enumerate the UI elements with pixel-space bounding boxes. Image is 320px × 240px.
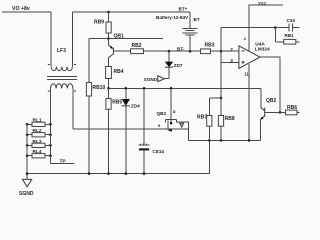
wire RL right bus <box>50 124 52 163</box>
wire pin3 <box>221 62 239 64</box>
wire top rail to battery <box>73 11 191 13</box>
resistor RL2 <box>26 128 52 137</box>
transistor QB2 <box>260 88 280 140</box>
battery BT <box>156 7 200 52</box>
zener ZD4 <box>122 88 141 173</box>
primary right leg <box>72 12 74 67</box>
wire TP stub <box>51 163 75 165</box>
wire RB2 to RB3 <box>144 50 201 52</box>
node battery minus <box>189 50 192 53</box>
svg-text:D: D <box>173 109 176 114</box>
svg-text:RB1: RB1 <box>285 33 295 38</box>
secondary right leg <box>72 88 74 129</box>
node CE14 bottom <box>143 172 146 175</box>
node RB5 bottom <box>107 172 110 175</box>
svg-text:ZD7: ZD7 <box>174 63 183 68</box>
node ZD4 bottom <box>125 172 128 175</box>
resistor RB8 <box>218 98 234 140</box>
node rail left <box>26 172 29 175</box>
transistor QB1 <box>109 34 125 67</box>
ground SGND bottom <box>19 179 34 196</box>
svg-text:S: S <box>158 123 161 128</box>
svg-text:LF3: LF3 <box>57 48 66 54</box>
wire RL left bus <box>26 124 28 179</box>
core lines <box>47 77 77 80</box>
node ZD7 top <box>168 50 171 53</box>
resistor RB2 <box>131 43 144 54</box>
wire horizontal y38.5 <box>89 38 163 40</box>
resistor RB10 <box>86 83 105 97</box>
resistor RB4 <box>106 67 124 89</box>
pin tick secondary 2 <box>74 90 76 92</box>
capacitor C34 <box>275 18 299 32</box>
svg-text:SGND: SGND <box>19 191 34 197</box>
node RB8 bottom <box>220 139 223 142</box>
resistor RB6 <box>280 105 300 115</box>
wire rail y140 <box>189 139 261 141</box>
node RB4/RB5 <box>107 87 110 90</box>
svg-text:RB4: RB4 <box>114 69 124 75</box>
resistor RB1 <box>275 28 299 45</box>
wire left drop to RB10 <box>88 39 90 83</box>
node RB7 bottom <box>208 139 211 142</box>
ground marker small <box>180 123 184 127</box>
wire QB1 base to RB2 <box>113 50 130 52</box>
wire RB10 to rail <box>88 96 90 129</box>
wire ground rail link <box>208 140 210 173</box>
svg-text:BT+: BT+ <box>179 7 188 12</box>
wire bottom rail <box>27 173 209 175</box>
node QB1 collector <box>107 37 110 40</box>
resistor RL4 <box>26 149 52 158</box>
pin tick secondary 1 <box>48 90 50 92</box>
pin tick primary 2 <box>74 64 76 66</box>
wire top-left rail <box>2 12 51 67</box>
node CE14 top <box>143 87 146 90</box>
resistor RB3 <box>201 42 215 53</box>
resistor RB9 <box>94 12 111 39</box>
node QB3 drain <box>170 87 173 90</box>
wire divider tap left <box>209 97 221 99</box>
resistor RL1 <box>26 118 52 127</box>
svg-text:RB7: RB7 <box>197 115 207 121</box>
svg-text:11: 11 <box>244 71 249 76</box>
svg-text:RB8: RB8 <box>225 116 235 122</box>
capacitor CE14 <box>139 88 165 173</box>
secondary left leg <box>50 88 52 124</box>
svg-text:SGND: SGND <box>144 77 158 82</box>
wire QB3 right link <box>177 122 189 140</box>
wire RB3 to op-amp pin2 <box>211 50 239 52</box>
node pin11 bottom <box>248 139 251 142</box>
svg-text:U4A: U4A <box>255 41 265 47</box>
node feedback right <box>274 26 277 29</box>
resistor RB5 <box>106 88 123 173</box>
wire rail y129 <box>73 128 189 130</box>
svg-text:Battery-12-84V: Battery-12-84V <box>156 15 189 20</box>
zener ZD7 <box>165 51 183 78</box>
svg-text:BT: BT <box>194 17 200 22</box>
svg-text:TP: TP <box>60 159 67 165</box>
wire pin 11 <box>244 64 249 140</box>
svg-text:BT-: BT- <box>177 46 185 51</box>
wire RB10 chain to bottom rail <box>88 129 90 174</box>
resistor RL3 <box>26 139 52 148</box>
svg-text:VO +8v: VO +8v <box>12 6 30 12</box>
node output to RB6 <box>279 111 282 114</box>
wire op-amp output <box>260 57 280 112</box>
node feedback tap <box>220 50 223 53</box>
op-amp U4A LM324 <box>239 41 270 68</box>
svg-text:RB3: RB3 <box>205 42 215 48</box>
svg-text:QB3: QB3 <box>157 111 167 116</box>
node divider tap <box>220 97 223 100</box>
mosfet QB3 <box>157 88 177 131</box>
pin tick primary 1 <box>48 64 50 66</box>
node RB10 bottom <box>88 172 91 175</box>
svg-text:CE14: CE14 <box>153 149 165 154</box>
node ZD4 top <box>125 87 128 90</box>
svg-text:C34: C34 <box>287 18 296 23</box>
wire feedback top <box>221 27 275 29</box>
svg-text:2: 2 <box>230 47 233 52</box>
wire +5V power pin 4 <box>244 0 283 51</box>
ground port SGND (zener) <box>144 76 169 82</box>
primary coil <box>51 67 72 71</box>
svg-text:RB10: RB10 <box>93 85 106 91</box>
svg-text:QB2: QB2 <box>266 98 277 104</box>
svg-text:LM324: LM324 <box>255 47 270 53</box>
svg-text:RB2: RB2 <box>132 43 142 49</box>
svg-text:RB5: RB5 <box>112 100 122 106</box>
wire mid bus y88 <box>109 87 262 89</box>
node RB9 top <box>107 11 110 14</box>
svg-text:QB1: QB1 <box>114 34 125 40</box>
secondary coil <box>51 84 73 89</box>
svg-text:RB9: RB9 <box>94 20 104 26</box>
svg-text:ZD4: ZD4 <box>131 103 140 108</box>
resistor RB7 <box>197 98 212 140</box>
transformer LF3 <box>47 12 77 129</box>
wire feedback vertical <box>220 28 222 99</box>
